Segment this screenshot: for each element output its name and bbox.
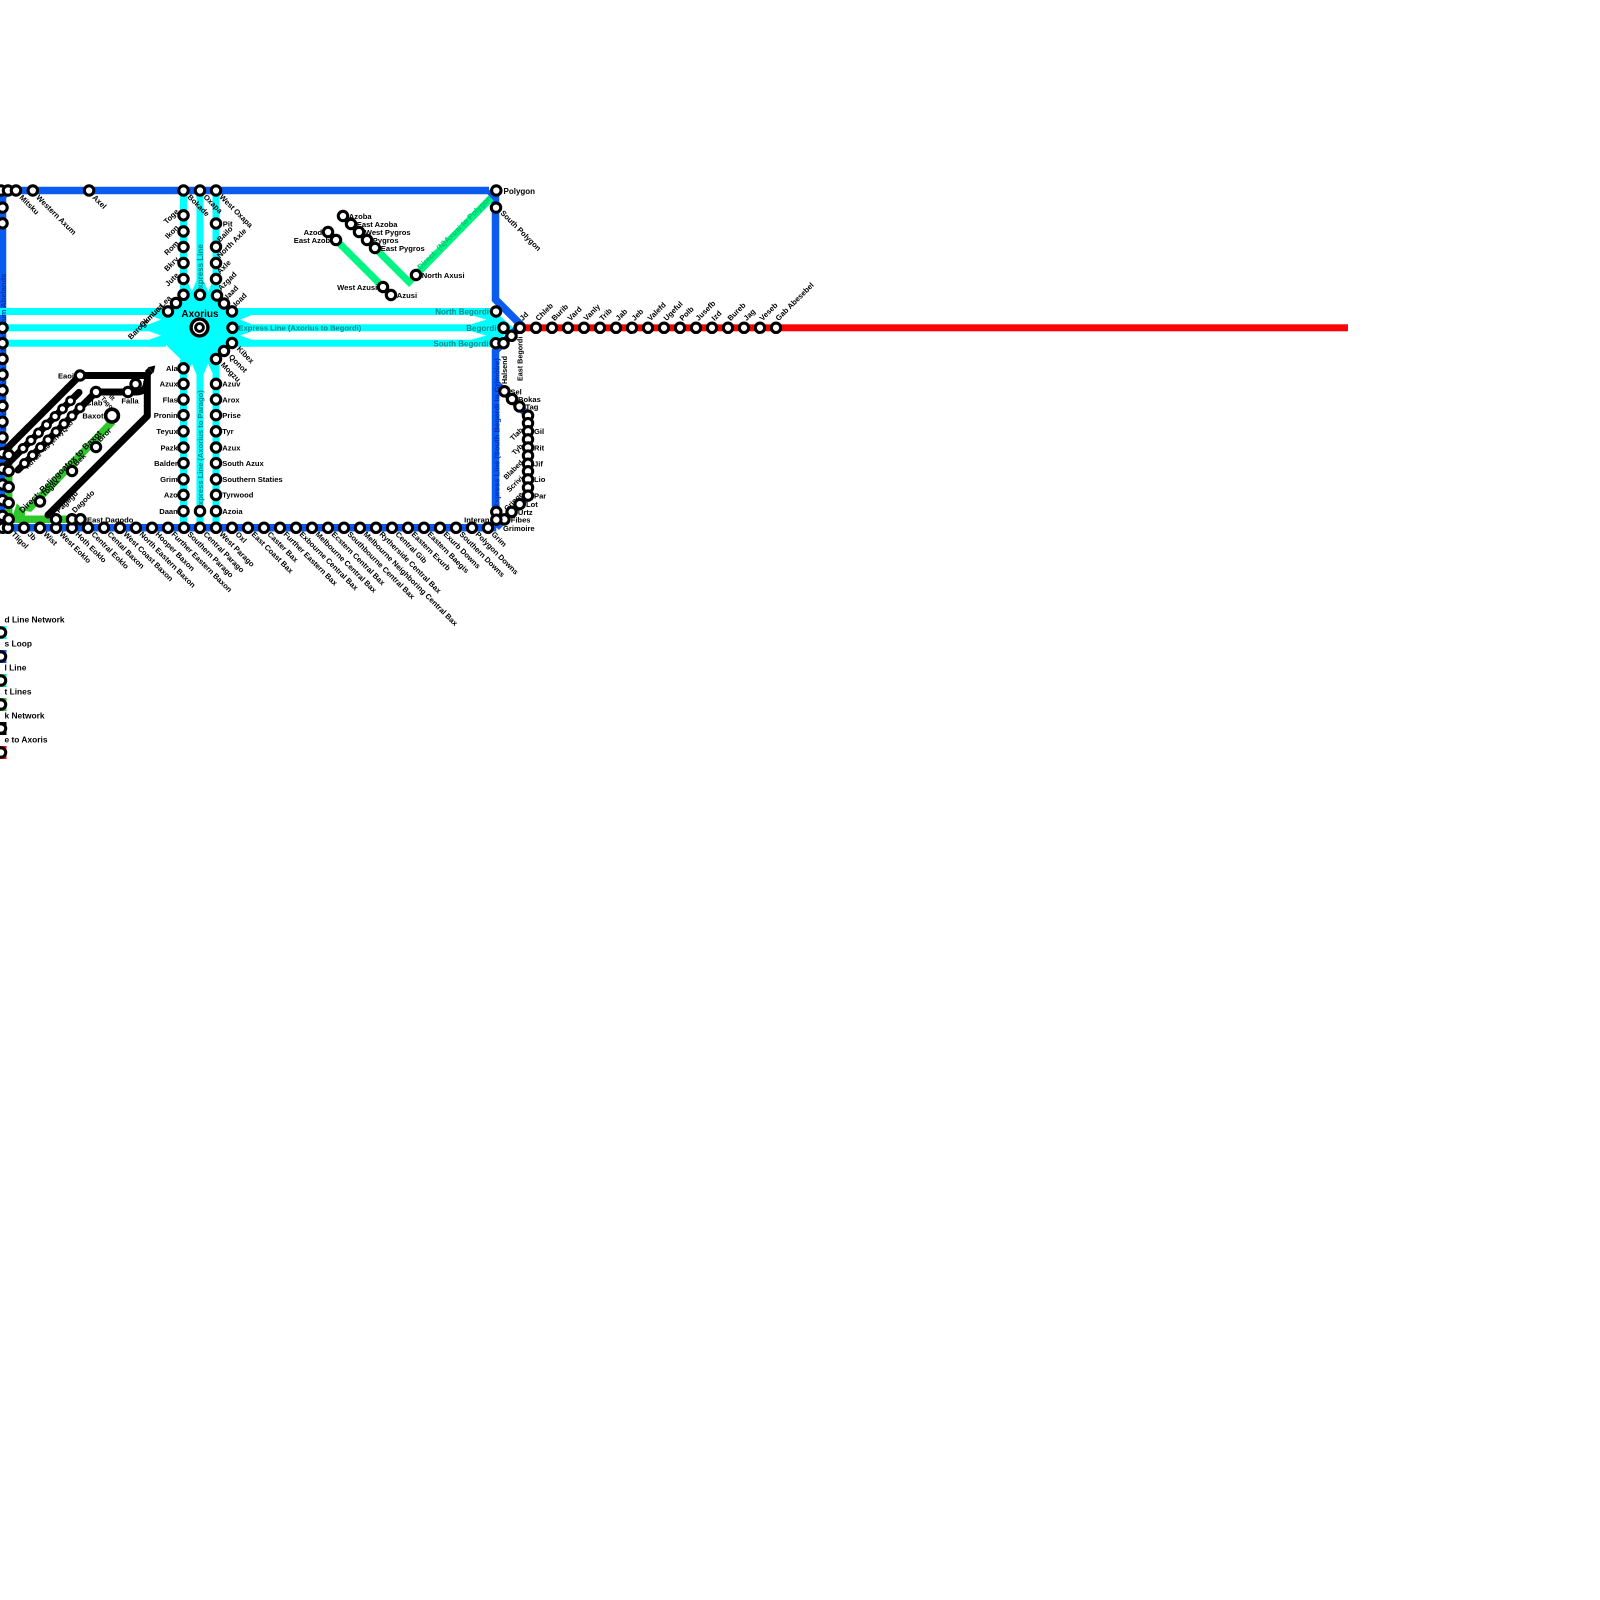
station	[370, 243, 379, 252]
svg-text:Balder: Balder	[154, 459, 178, 468]
station	[35, 523, 44, 532]
station	[0, 219, 7, 228]
station	[211, 274, 220, 283]
legend swatch 1	[0, 626, 7, 639]
station	[563, 323, 572, 332]
wire red line (to Axoris)	[514, 324, 1348, 331]
station	[507, 507, 516, 516]
svg-text:Azux: Azux	[222, 443, 241, 452]
wire blue right lower (South Begordi to Grimoire)	[492, 349, 500, 528]
legend swatch 6	[0, 746, 7, 759]
station	[523, 483, 532, 492]
station	[179, 274, 188, 283]
station	[212, 291, 221, 300]
wire blue Begordi junction overlay	[496, 300, 522, 351]
svg-text:East Pygros: East Pygros	[381, 244, 425, 253]
svg-text:Azoia: Azoia	[222, 507, 243, 516]
station	[491, 339, 500, 348]
station	[51, 412, 59, 420]
station	[211, 395, 220, 404]
station	[0, 401, 7, 410]
station	[0, 523, 7, 532]
station	[291, 523, 300, 532]
station	[91, 442, 100, 451]
wire cyan north columns	[180, 190, 187, 288]
station	[531, 323, 540, 332]
station	[547, 323, 556, 332]
station	[123, 387, 132, 396]
station	[0, 724, 6, 733]
station	[643, 323, 652, 332]
svg-text:Express Line (Axorius to Parag: Express Line (Axorius to Parago)	[196, 390, 205, 510]
svg-text:Tyrwood: Tyrwood	[222, 491, 253, 500]
svg-text:Grimoire: Grimoire	[503, 524, 535, 533]
station	[0, 433, 7, 442]
svg-text:Ala: Ala	[166, 364, 179, 373]
station	[211, 523, 220, 532]
station	[491, 307, 500, 316]
wedge Begordi gaps	[471, 315, 487, 324]
station	[211, 219, 220, 228]
wedge east gaps	[240, 315, 252, 324]
wire black H2 with U-turn	[96, 381, 147, 392]
station	[0, 323, 7, 332]
wire blue east bulge	[496, 383, 529, 528]
station	[91, 387, 100, 396]
wire black vertical	[144, 372, 151, 416]
station	[331, 235, 340, 244]
station	[723, 323, 732, 332]
station	[35, 497, 44, 506]
station	[211, 354, 220, 363]
station	[75, 371, 84, 380]
station	[84, 186, 93, 195]
station	[259, 523, 268, 532]
station	[44, 436, 52, 444]
wire cyan Begordi arrow	[472, 308, 514, 347]
station	[0, 628, 6, 637]
station	[195, 290, 204, 299]
svg-text:South Azux: South Azux	[222, 459, 264, 468]
station	[0, 339, 7, 348]
arrowhead green SW	[11, 503, 28, 520]
station	[211, 458, 220, 467]
wire cyan south flare	[180, 360, 220, 375]
station	[67, 466, 76, 475]
svg-text:Begordi: Begordi	[466, 324, 496, 333]
svg-text:North Axusi: North Axusi	[422, 271, 465, 280]
wire blue loop top	[9, 187, 490, 195]
station	[67, 523, 76, 532]
svg-text:Eaoi: Eaoi	[58, 372, 74, 381]
wire black gamma diagonal	[18, 392, 96, 470]
station	[675, 323, 684, 332]
station	[179, 242, 188, 251]
station	[755, 323, 764, 332]
station	[515, 323, 524, 332]
station	[387, 523, 396, 532]
wire blue loop left	[3, 191, 9, 528]
station	[0, 417, 7, 426]
station	[4, 450, 13, 459]
station	[307, 523, 316, 532]
station	[500, 387, 509, 396]
svg-text:West Azusi: West Azusi	[337, 283, 377, 292]
station	[467, 523, 476, 532]
station	[515, 323, 524, 332]
wedge west gaps	[149, 315, 161, 324]
station	[179, 490, 188, 499]
station	[76, 404, 84, 412]
station	[492, 515, 501, 524]
station	[595, 323, 604, 332]
station	[171, 298, 180, 307]
svg-text:Polygon: Polygon	[504, 187, 536, 196]
station	[4, 498, 13, 507]
station	[115, 523, 124, 532]
station	[0, 652, 6, 661]
station	[4, 515, 13, 524]
station	[579, 323, 588, 332]
station	[211, 427, 220, 436]
station	[59, 405, 67, 413]
station	[523, 443, 532, 452]
station	[68, 412, 76, 420]
station	[179, 458, 188, 467]
station	[106, 409, 119, 422]
station	[83, 523, 92, 532]
station	[515, 499, 524, 508]
station	[179, 506, 188, 515]
station	[507, 331, 516, 340]
station	[492, 507, 501, 516]
station	[0, 386, 7, 395]
svg-text:Halsend: Halsend	[500, 356, 509, 384]
svg-text:Arox: Arox	[222, 395, 240, 404]
station	[179, 523, 188, 532]
station	[371, 523, 380, 532]
wire cyan north flare	[180, 281, 220, 296]
station	[386, 290, 395, 299]
svg-text:Pazk: Pazk	[160, 443, 178, 452]
station	[27, 436, 35, 444]
svg-text:s Loop: s Loop	[5, 639, 32, 649]
station	[0, 480, 7, 489]
station	[0, 448, 7, 457]
station	[355, 523, 364, 532]
station	[362, 235, 371, 244]
station	[179, 227, 188, 236]
svg-text:Gil: Gil	[534, 427, 544, 436]
station	[131, 379, 140, 388]
station	[507, 394, 516, 403]
legend swatch 2	[0, 650, 7, 663]
station	[523, 459, 532, 468]
station	[451, 523, 460, 532]
legend swatch 3	[0, 674, 7, 687]
station	[28, 186, 37, 195]
station	[179, 211, 188, 220]
svg-text:Jif: Jif	[534, 460, 543, 469]
svg-text:Azusi: Azusi	[397, 291, 417, 300]
station	[523, 418, 532, 427]
station	[339, 523, 348, 532]
station	[179, 395, 188, 404]
wire black outer diagonal	[48, 416, 147, 515]
station	[378, 282, 387, 291]
station	[67, 515, 76, 524]
svg-text:Daan: Daan	[159, 507, 178, 516]
station	[211, 475, 220, 484]
station	[227, 307, 236, 316]
wire cyan east flare	[233, 308, 251, 347]
svg-text:d Line Network: d Line Network	[5, 615, 65, 625]
station	[0, 496, 7, 505]
svg-text:Baxot: Baxot	[82, 412, 104, 421]
wire cyan south columns	[180, 366, 187, 528]
svg-text:e to Axoris: e to Axoris	[5, 735, 48, 745]
station	[163, 307, 172, 316]
station	[0, 464, 7, 473]
station	[0, 748, 6, 757]
station	[771, 323, 780, 332]
station	[195, 523, 204, 532]
svg-text:k Network: k Network	[5, 711, 45, 721]
svg-text:Express Line: Express Line	[196, 244, 205, 294]
station	[323, 523, 332, 532]
station	[211, 443, 220, 452]
wire spring line A (Azoba to Polygon)	[343, 198, 491, 282]
station	[491, 203, 500, 212]
station	[0, 354, 7, 363]
station	[523, 451, 532, 460]
svg-text:Pronin: Pronin	[154, 411, 178, 420]
station	[499, 323, 508, 332]
station	[43, 421, 51, 429]
station	[67, 397, 75, 405]
station	[323, 227, 332, 236]
station	[4, 466, 13, 475]
station	[179, 379, 188, 388]
svg-text:Azuv: Azuv	[222, 380, 241, 389]
station	[0, 203, 7, 212]
station	[523, 467, 532, 476]
station	[219, 346, 228, 355]
wire blue right upper (Polygon to Begordi)	[489, 191, 521, 351]
station	[4, 482, 13, 491]
station	[195, 506, 204, 515]
wire cyan express rows west	[0, 308, 160, 315]
station	[179, 364, 188, 373]
arrowhead black NE to Axoris	[147, 370, 150, 373]
station	[0, 186, 6, 195]
svg-text:t Lines: t Lines	[5, 687, 32, 697]
svg-text:Par: Par	[534, 491, 546, 500]
station	[411, 270, 420, 279]
station	[179, 443, 188, 452]
station	[739, 323, 748, 332]
wire blue loop bottom	[5, 524, 496, 532]
station	[179, 427, 188, 436]
svg-text:Tyr: Tyr	[222, 427, 233, 436]
station	[163, 523, 172, 532]
station	[179, 475, 188, 484]
wedge south gaps	[187, 364, 197, 375]
station	[211, 490, 220, 499]
station	[211, 186, 220, 195]
svg-text:Falla: Falla	[121, 397, 139, 406]
station	[195, 186, 204, 195]
svg-text:Teyux: Teyux	[156, 427, 178, 436]
station	[131, 523, 140, 532]
station	[659, 323, 668, 332]
station	[492, 186, 501, 195]
station	[37, 443, 45, 451]
station	[147, 523, 156, 532]
station	[52, 428, 60, 436]
wire spring line B (Azod to Azusi)	[328, 232, 391, 295]
svg-text:Azux: Azux	[160, 380, 179, 389]
station	[211, 258, 220, 267]
svg-text:Lio: Lio	[534, 475, 546, 484]
station	[500, 515, 509, 524]
station	[483, 523, 492, 532]
station	[435, 523, 444, 532]
svg-text:East Begordi: East Begordi	[515, 337, 524, 381]
station	[19, 523, 28, 532]
station	[3, 186, 12, 195]
svg-text:l Line: l Line	[5, 663, 27, 673]
station	[179, 258, 188, 267]
station	[219, 299, 228, 308]
station	[99, 523, 108, 532]
svg-text:Southern Staties: Southern Staties	[222, 475, 282, 484]
svg-text:Grim: Grim	[160, 475, 178, 484]
station	[227, 338, 236, 347]
wire cyan west flare	[149, 308, 166, 347]
station	[211, 410, 220, 419]
wire black Eaoi horizontal	[80, 372, 147, 379]
station	[346, 219, 355, 228]
station	[523, 411, 532, 420]
station	[29, 451, 37, 459]
svg-text:East Dagodo: East Dagodo	[87, 515, 134, 524]
station	[11, 186, 20, 195]
station	[211, 379, 220, 388]
station	[211, 506, 220, 515]
station	[76, 515, 85, 524]
station	[0, 700, 6, 709]
station	[0, 676, 6, 685]
station	[243, 523, 252, 532]
wire green diagonal (Belingoatox)	[21, 422, 113, 518]
station	[51, 523, 60, 532]
svg-text:South Begordi: South Begordi	[433, 339, 488, 348]
station	[275, 523, 284, 532]
station	[3, 523, 12, 532]
station	[691, 323, 700, 332]
station	[338, 211, 347, 220]
wire black alpha diagonal	[0, 376, 80, 456]
station	[627, 323, 636, 332]
station	[0, 511, 7, 520]
node Axorius octagon	[165, 295, 235, 361]
wire cyan express rows east	[233, 308, 475, 315]
svg-text:Express Line (Axorius to Begor: Express Line (Axorius to Begordi)	[239, 324, 362, 333]
station	[523, 491, 532, 500]
station	[707, 323, 716, 332]
station	[403, 523, 412, 532]
station	[60, 420, 68, 428]
station	[179, 410, 188, 419]
station	[611, 323, 620, 332]
wire black beta diagonal	[0, 392, 79, 471]
svg-text:North Begordi: North Begordi	[435, 308, 489, 317]
station	[523, 435, 532, 444]
station	[19, 444, 27, 452]
wedge green corner notch	[25, 511, 51, 516]
svg-text:Prise: Prise	[222, 411, 241, 420]
svg-text:Flas: Flas	[163, 395, 178, 404]
station	[179, 290, 188, 299]
station	[0, 370, 7, 379]
svg-text:Rit: Rit	[534, 443, 545, 452]
station	[523, 475, 532, 484]
wire green vertical	[9, 447, 84, 519]
station	[515, 402, 524, 411]
station	[51, 515, 60, 524]
station	[523, 427, 532, 436]
wedge north gaps	[187, 281, 197, 292]
station	[179, 186, 188, 195]
node Axorius bullseye	[190, 318, 210, 338]
station	[228, 323, 237, 332]
station	[419, 523, 428, 532]
station	[211, 242, 220, 251]
station	[35, 429, 43, 437]
station	[499, 339, 508, 348]
station	[21, 459, 29, 467]
legend swatch 5	[0, 722, 7, 735]
legend swatch 4	[0, 698, 7, 711]
station	[227, 523, 236, 532]
svg-text:Azo: Azo	[164, 491, 178, 500]
station	[354, 227, 363, 236]
